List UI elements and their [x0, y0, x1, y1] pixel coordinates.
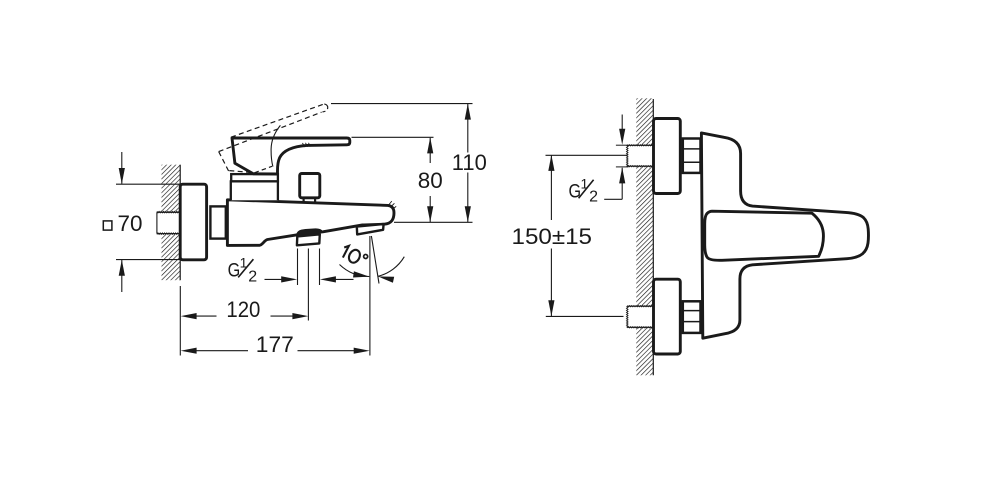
- svg-text:G: G: [569, 180, 582, 202]
- hex nut top (right view): [683, 139, 701, 173]
- text 10 degrees (rotated): [340, 244, 369, 268]
- slanted 10 degree line: [371, 236, 379, 284]
- threaded pipe stub (left view wall inlet): [157, 211, 180, 234]
- extension line from raised handle tip (top reference): [331, 103, 473, 105]
- dimension 150+-15 vertical line with arrows: [548, 155, 554, 316]
- extension line left edge of shower outlet: [297, 249, 299, 286]
- diverter knob on top of body: [300, 174, 320, 203]
- extension line from spout outlet (bottom reference): [394, 221, 473, 223]
- eccentric adapter between escutcheon and body: [210, 206, 225, 238]
- faucet body outline (right view): [701, 133, 868, 338]
- hex nut bottom (right view): [683, 301, 701, 333]
- wall face line (left view): [179, 165, 181, 281]
- escutcheon top (right view): [654, 119, 681, 194]
- svg-text:1: 1: [581, 175, 589, 191]
- dimension 70: lower shaft and arrow: [119, 260, 125, 292]
- svg-text:2: 2: [248, 268, 257, 285]
- dimension 80 vertical line with arrows: [427, 137, 433, 222]
- upper body block (cartridge housing): [231, 181, 278, 200]
- extension line bottom of escutcheon (for 70 dim): [116, 259, 180, 261]
- dashed handle left edge: [219, 152, 229, 172]
- square symbol of dimension 70: [103, 221, 112, 230]
- raised handle front S-curve (thin): [271, 125, 280, 166]
- dashed handle tip cap: [323, 104, 328, 112]
- G1/2 upper arrow (pointing down to pipe): [616, 115, 629, 146]
- lever grip (right view, front face): [705, 211, 824, 260]
- centerline of shower outlet (for 120 dim): [307, 249, 309, 321]
- svg-text:177: 177: [256, 332, 294, 357]
- extension line from wall face down (for 120/177 dims): [179, 286, 181, 356]
- svg-text:120: 120: [226, 297, 260, 322]
- lever handle (closed position, left view): [232, 138, 350, 174]
- aerator outlet at spout tip (tilted): [357, 224, 384, 234]
- text G1/2 (right view): [569, 175, 599, 205]
- threaded pipe stub top (right view): [627, 145, 654, 167]
- hand shower outlet box under body: [297, 234, 320, 245]
- rough tick marks at spout tip top: [389, 201, 396, 209]
- G1/2 lower arrow (pointing up to pipe) with leader: [604, 167, 628, 199]
- extension line right edge of shower outlet: [319, 249, 321, 286]
- angle arc right segment with arrow: [377, 257, 404, 283]
- extension line from handle top (80 reference): [352, 136, 434, 138]
- dimension 110 vertical line with arrows: [465, 104, 471, 223]
- svg-text:110: 110: [452, 150, 487, 175]
- dashed handle bottom edge: [229, 171, 254, 173]
- vertical extension line from aerator (angle vertex, 177 dim): [369, 236, 371, 356]
- wall hatching (left view): [157, 165, 180, 281]
- cartridge collar under handle: [231, 174, 278, 181]
- threaded pipe stub bottom (right view): [627, 306, 654, 329]
- knurl tick marks on handle underside: [303, 143, 311, 147]
- centerline bottom pipe (for 150 dim): [546, 315, 624, 317]
- escutcheon (left view): [180, 184, 206, 260]
- svg-text:G: G: [228, 259, 241, 281]
- dimension 177 line with arrows: [181, 348, 370, 354]
- svg-text:2: 2: [589, 189, 598, 206]
- escutcheon bottom (right view): [654, 279, 681, 354]
- svg-text:80: 80: [418, 168, 443, 193]
- G1/2 opposite arrow pointing left: [320, 276, 354, 282]
- centerline top pipe (for 150 dim): [546, 154, 628, 156]
- spout / body outline (left view): [227, 200, 394, 246]
- text G1/2 (left view): [228, 255, 258, 286]
- dimension 120 line with arrows: [181, 313, 309, 319]
- G1/2 leader arrow pointing right: [265, 276, 298, 282]
- extension line top of escutcheon (for 70 dim): [116, 183, 180, 185]
- svg-text:70: 70: [118, 211, 143, 236]
- threaded boss under spout (dense hatch bump): [296, 229, 323, 235]
- dashed handle bottom edge rising to raised S-curve: [255, 166, 273, 173]
- angle arc left segment with arrow: [340, 265, 370, 280]
- wall hatching (right view): [627, 98, 654, 375]
- wall face line (right view): [652, 99, 654, 375]
- dashed handle outline (open position) upper edge: [231, 104, 324, 137]
- svg-text:150±15: 150±15: [512, 224, 593, 249]
- dashed handle lower edge: [219, 112, 322, 151]
- dimension 70: upper shaft and arrow: [119, 152, 125, 184]
